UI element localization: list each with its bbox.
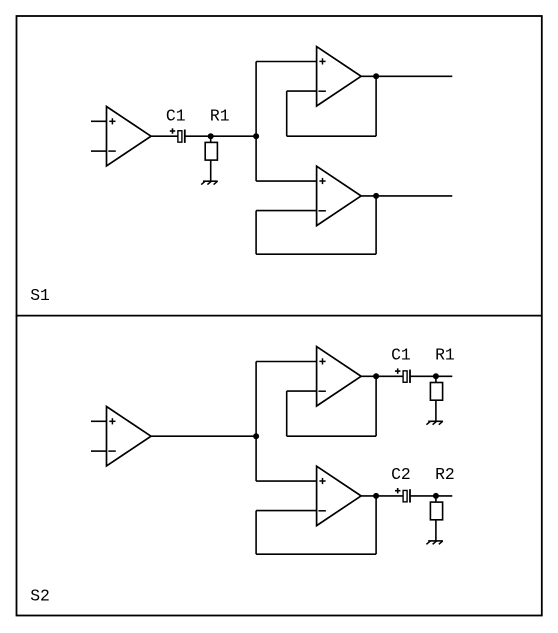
wire U3 feedback bottom segment — [256, 253, 376, 255]
wire U6 feedback bottom segment — [256, 553, 376, 555]
wire U6 output to C2 — [361, 495, 403, 497]
svg-text:S1: S1 — [30, 286, 50, 305]
junction dot (U2 output node) — [373, 73, 379, 79]
op-amp U5 (S2 upper buffer) — [317, 347, 362, 406]
wire U1 output to C1 — [151, 135, 178, 137]
junction dot (U6 output node) — [373, 493, 379, 499]
wire C1 to node R1 S2 — [411, 375, 436, 377]
ground (under R1, S1) — [201, 181, 218, 184]
wire U5 inverting input stub — [287, 390, 317, 392]
wire C1 to node R1 — [185, 135, 210, 137]
wire C2 to node R2 S2 — [411, 495, 436, 497]
label R2 (S2) — [435, 465, 455, 484]
junction dot (node at R1 top, S2) — [433, 373, 439, 379]
svg-text:S2: S2 — [30, 586, 50, 605]
wire U5 feedback bottom segment — [287, 435, 376, 437]
resistor R2 (S2) — [430, 496, 442, 541]
wire U3 inverting input stub — [256, 210, 317, 212]
svg-text:R1: R1 — [210, 106, 230, 125]
wire U4 non-inverting input stub — [91, 420, 107, 422]
junction dot (main junction S1) — [253, 133, 259, 139]
capacitor C1 (S1) — [170, 128, 185, 143]
svg-text:C1: C1 — [166, 106, 186, 125]
label C1 (S2) — [391, 345, 411, 364]
label C2 (S2) — [391, 465, 411, 484]
wire U3 output line — [361, 195, 452, 197]
label R1 (S1) — [210, 106, 230, 125]
svg-text:C1: C1 — [391, 345, 411, 364]
wire U5 feedback down segment — [375, 376, 377, 436]
wire U1 non-inverting input stub — [91, 120, 107, 122]
wire U3 feedback down segment — [375, 196, 377, 254]
label S1 box name — [30, 286, 50, 305]
junction dot (U3 output node) — [373, 193, 379, 199]
wire U6 inverting input stub — [256, 510, 317, 512]
svg-text:C2: C2 — [391, 465, 411, 484]
wire U5 output to C1 — [361, 375, 403, 377]
op-amp U3 (S1 lower buffer) — [317, 166, 362, 225]
wire U6 feedback down segment — [375, 496, 377, 554]
svg-text:R2: R2 — [435, 465, 455, 484]
wire node R2 to open end, S2 lower output — [436, 495, 452, 497]
junction dot (node at R1 top, S1) — [208, 133, 214, 139]
wire U5 feedback up segment — [286, 391, 288, 436]
junction dot (main junction S2) — [253, 433, 259, 439]
wire U2 output line — [361, 75, 452, 77]
ground (under R2, S2) — [426, 541, 443, 544]
wire bus to U5 non-inverting input — [256, 361, 317, 363]
wire U1 inverting input stub — [91, 150, 107, 152]
wire U2 feedback down segment — [375, 76, 377, 136]
ground (under R1, S2) — [426, 421, 443, 424]
svg-text:R1: R1 — [435, 345, 455, 364]
op-amp U1 (S1 input buffer) — [107, 107, 152, 166]
wire main junction S1 vertical bus — [255, 62, 257, 182]
wire U4 inverting input stub — [91, 450, 107, 452]
wire U2 inverting input stub — [287, 90, 317, 92]
wire U3 feedback up segment — [255, 211, 257, 255]
wire U2 feedback bottom segment — [287, 135, 376, 137]
label C1 (S1) — [166, 106, 186, 125]
wire U2 feedback up segment — [286, 91, 288, 136]
resistor R1 (S2) — [430, 376, 442, 421]
wire U6 feedback up segment — [255, 511, 257, 555]
op-amp U4 (S2 input driver) — [107, 407, 152, 466]
label R1 (S2) — [435, 345, 455, 364]
wire main junction S2 vertical bus — [255, 362, 257, 482]
junction dot (node at R2 top, S2) — [433, 493, 439, 499]
label S2 box name — [30, 586, 50, 605]
wire U4 output to main junction S2 — [151, 435, 256, 437]
resistor R1 (S1) — [205, 136, 217, 181]
op-amp U6 (S2 lower buffer) — [317, 466, 362, 525]
wire bus to U3 non-inverting input — [256, 180, 317, 182]
wire bus to U2 non-inverting input — [256, 61, 317, 63]
wire node R1 to main junction S1 — [211, 135, 256, 137]
divider line between S1 and S2 boxes — [16, 315, 543, 317]
wire bus to U6 non-inverting input — [256, 480, 317, 482]
junction dot (U5 output node) — [373, 373, 379, 379]
wire node R1 to open end, S2 upper output — [436, 375, 452, 377]
op-amp U2 (S1 upper buffer) — [317, 47, 362, 106]
capacitor C2 (S2) — [395, 488, 410, 503]
capacitor C1 (S2) — [395, 368, 410, 383]
